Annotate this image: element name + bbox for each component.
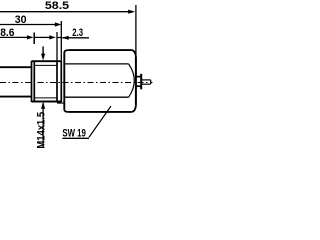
svg-text:30: 30 — [15, 14, 27, 26]
svg-text:SW 19: SW 19 — [62, 128, 86, 140]
svg-text:8.6: 8.6 — [0, 27, 14, 39]
svg-text:2.3: 2.3 — [72, 27, 83, 39]
svg-text:58.5: 58.5 — [45, 0, 69, 12]
svg-text:M14x1.5: M14x1.5 — [35, 112, 47, 149]
